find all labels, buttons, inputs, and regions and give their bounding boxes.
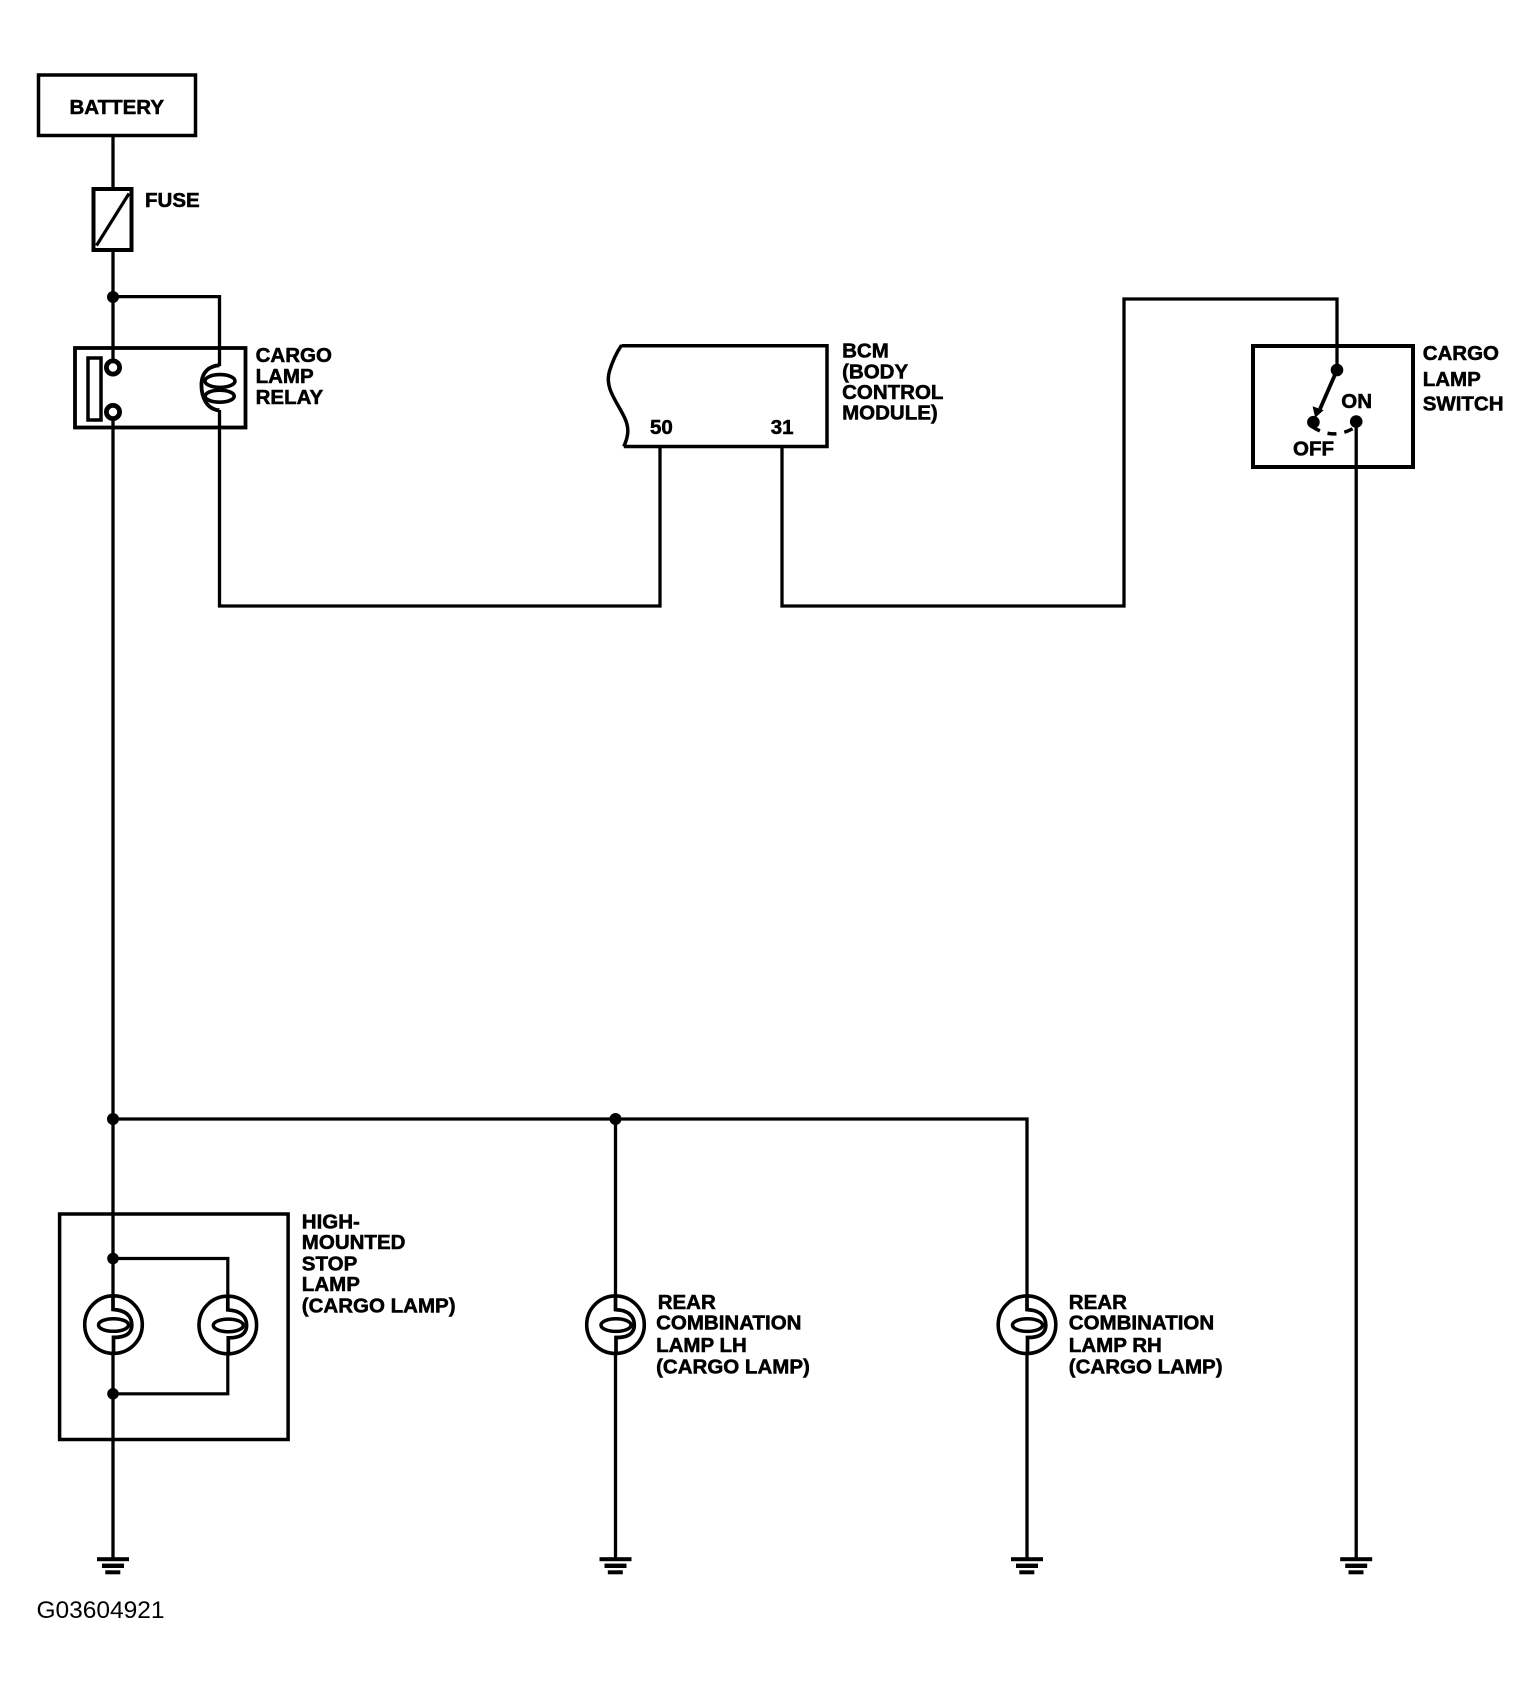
- wire battery to fuse: [111, 135, 114, 190]
- ground G1: [97, 1557, 129, 1574]
- high-mounted stop lamp (cargo lamp) assembly: [60, 1210, 456, 1439]
- svg-text:G03604921: G03604921: [37, 1597, 165, 1624]
- wire LH lamp to ground G2: [614, 1350, 617, 1558]
- bulb A of stop lamp: [85, 1295, 143, 1354]
- wire relay contact down to lamp bus and ground G1: [111, 418, 114, 1558]
- svg-text:MOUNTED: MOUNTED: [302, 1231, 406, 1254]
- ground G2: [600, 1557, 632, 1574]
- wire BCM pin 31 to switch: [782, 299, 1337, 606]
- svg-text:MODULE): MODULE): [842, 402, 938, 425]
- wire RH lamp to ground G3: [1025, 1350, 1028, 1558]
- node bus LH branch: [610, 1113, 622, 1125]
- rear combination lamp LH bulb: [587, 1291, 810, 1379]
- svg-text:CARGO: CARGO: [256, 344, 332, 367]
- svg-text:ON: ON: [1341, 390, 1372, 413]
- svg-text:HIGH-: HIGH-: [302, 1210, 360, 1233]
- wire relay coil to BCM pin 50: [220, 410, 661, 606]
- wire node A to relay contact pin: [111, 297, 114, 360]
- svg-text:SWITCH: SWITCH: [1423, 393, 1504, 416]
- rear combination lamp RH bulb: [998, 1291, 1222, 1379]
- svg-text:BATTERY: BATTERY: [70, 96, 165, 119]
- svg-text:(CARGO LAMP): (CARGO LAMP): [656, 1356, 810, 1379]
- svg-text:(CARGO LAMP): (CARGO LAMP): [1069, 1356, 1223, 1379]
- svg-text:REAR: REAR: [1069, 1291, 1127, 1314]
- bulb B of stop lamp: [199, 1295, 257, 1354]
- wire from bulb B bottom: [113, 1352, 228, 1394]
- switch OFF contact: [1307, 416, 1320, 429]
- switch arm: [1320, 370, 1337, 409]
- wire bus to LH lamp: [614, 1119, 617, 1298]
- wire node A to relay coil: [113, 297, 220, 366]
- lamp bus wire: [113, 1119, 1027, 1296]
- node stop-lamp top junction: [107, 1253, 119, 1265]
- svg-text:COMBINATION: COMBINATION: [1069, 1312, 1214, 1335]
- BCM body control module: [608, 340, 943, 447]
- svg-text:LAMP: LAMP: [256, 365, 314, 388]
- svg-text:LAMP: LAMP: [302, 1273, 360, 1296]
- svg-text:COMBINATION: COMBINATION: [656, 1312, 801, 1335]
- relay contact blade: [88, 358, 101, 420]
- svg-text:LAMP RH: LAMP RH: [1069, 1334, 1162, 1357]
- relay terminal bottom: [106, 405, 119, 418]
- wire switch to ground G4: [1355, 422, 1358, 1558]
- svg-text:(CARGO LAMP): (CARGO LAMP): [302, 1295, 456, 1318]
- svg-text:31: 31: [771, 416, 794, 439]
- switch common contact: [1331, 364, 1344, 377]
- node stop-lamp bottom junction: [107, 1388, 119, 1400]
- relay terminal top: [106, 361, 119, 374]
- switch throw arc: [1312, 426, 1357, 434]
- svg-text:OFF: OFF: [1293, 438, 1334, 461]
- svg-text:BCM: BCM: [842, 340, 889, 363]
- svg-text:RELAY: RELAY: [256, 386, 324, 409]
- fuse: [94, 189, 200, 250]
- svg-text:LAMP LH: LAMP LH: [656, 1334, 747, 1357]
- wire to bulb B top: [113, 1259, 228, 1299]
- battery: [39, 75, 196, 136]
- ground G3: [1011, 1557, 1043, 1574]
- switch CARGO LAMP SWITCH: [1253, 342, 1504, 467]
- svg-text:50: 50: [650, 416, 673, 439]
- ground G4: [1340, 1557, 1372, 1574]
- relay CARGO LAMP RELAY: [75, 344, 332, 427]
- svg-text:CONTROL: CONTROL: [842, 381, 943, 404]
- node bus left: [107, 1113, 119, 1125]
- svg-text:FUSE: FUSE: [145, 189, 200, 212]
- switch ON contact: [1350, 415, 1363, 428]
- svg-text:LAMP: LAMP: [1423, 368, 1481, 391]
- svg-text:CARGO: CARGO: [1423, 342, 1499, 365]
- relay coil: [201, 365, 219, 410]
- wire fuse to node A: [111, 250, 114, 297]
- svg-text:REAR: REAR: [658, 1291, 716, 1314]
- node A junction: [107, 291, 119, 303]
- svg-text:(BODY: (BODY: [842, 360, 908, 383]
